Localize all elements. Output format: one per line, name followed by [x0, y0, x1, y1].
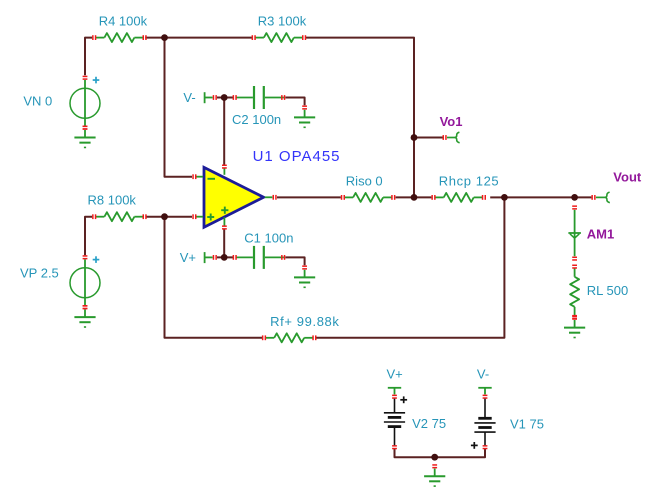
resistor R8	[88, 193, 146, 222]
junction node V- rail	[221, 94, 228, 101]
wire VN top to R4	[85, 38, 92, 76]
ammeter AM1	[568, 206, 614, 260]
battery V1	[471, 395, 544, 448]
node Vo1	[440, 114, 463, 143]
wire V- node to op-amp top pin	[223, 98, 225, 165]
wire feedback right leg	[315, 198, 504, 337]
capacitor C2	[232, 86, 285, 127]
ground of C1	[294, 266, 315, 287]
wire feedback left leg	[165, 218, 263, 338]
svg-text:Rhcp 125: Rhcp 125	[439, 173, 499, 188]
resistor Riso	[342, 173, 395, 202]
svg-text:V-: V-	[183, 90, 195, 105]
junction node R8/noninverting	[161, 213, 168, 220]
svg-text:V+: V+	[387, 367, 403, 382]
resistor Rf+	[263, 314, 340, 342]
resistor R4	[93, 14, 148, 42]
svg-text:R8 100k: R8 100k	[88, 193, 137, 208]
svg-text:R3 100k: R3 100k	[258, 14, 307, 29]
svg-text:R4 100k: R4 100k	[99, 14, 148, 29]
battery V2	[384, 395, 446, 448]
wire VP to R8	[85, 217, 92, 256]
ground of battery rail	[424, 465, 445, 486]
svg-text:Vout: Vout	[613, 169, 642, 184]
wire Vout stub	[575, 196, 592, 198]
wire node to inverting input	[165, 39, 193, 177]
wire op-amp output to Riso	[277, 196, 341, 198]
resistor RL	[570, 265, 628, 318]
wire node to Vout node	[504, 196, 574, 198]
ground of VN	[74, 126, 95, 147]
svg-text:Riso 0: Riso 0	[346, 173, 383, 188]
junction node R4/R3/inverting	[161, 34, 168, 41]
junction node V+ rail	[221, 254, 228, 261]
resistor Rhcp	[432, 173, 499, 202]
wire R4 to R3 through node	[145, 37, 252, 39]
svg-text:RL 500: RL 500	[587, 283, 628, 298]
svg-text:VN 0: VN 0	[23, 94, 52, 109]
wire Vo1 stub	[414, 137, 443, 139]
node V- battery terminal	[477, 367, 492, 395]
wire Rhcp to node	[490, 196, 504, 198]
ground of RL	[564, 316, 585, 337]
svg-text:AM1: AM1	[587, 227, 614, 242]
junction node Vo1	[411, 134, 418, 141]
node Vout	[592, 169, 642, 202]
svg-text:V2 75: V2 75	[412, 416, 446, 431]
label U1 OPA455	[253, 148, 341, 165]
wire battery bottom rail	[395, 449, 486, 457]
wire node to Rhcp	[414, 196, 431, 198]
wire R3 right down to Riso node	[306, 38, 414, 197]
svg-text:Vo1: Vo1	[440, 114, 463, 129]
node V+ battery terminal	[387, 367, 403, 395]
wire V+ terminal stub	[217, 256, 234, 258]
wire C1 to ground elbow	[285, 257, 304, 265]
capacitor C1	[233, 230, 293, 269]
junction node Vout	[571, 194, 578, 201]
wire op-amp bottom pin to V+ node	[223, 229, 225, 257]
svg-text:V+: V+	[180, 250, 196, 265]
wire R8 to noninverting input	[146, 216, 192, 218]
voltage source VP	[20, 256, 100, 309]
svg-text:U1 OPA455: U1 OPA455	[253, 148, 341, 165]
junction node Rhcp/feedback	[501, 194, 508, 201]
svg-text:VP 2.5: VP 2.5	[20, 266, 59, 281]
svg-text:V-: V-	[477, 367, 489, 382]
junction node Riso/Rhcp	[411, 194, 418, 201]
ground of VP	[74, 306, 95, 327]
svg-text:C1 100n: C1 100n	[244, 230, 293, 245]
node V- supply terminal	[183, 90, 216, 105]
svg-text:C2 100n: C2 100n	[232, 112, 281, 127]
op-amp U1	[193, 165, 276, 229]
resistor R3	[252, 14, 306, 42]
svg-text:V1 75: V1 75	[510, 416, 544, 431]
wire C2 to ground elbow	[285, 98, 304, 106]
wire Riso to node	[396, 196, 413, 198]
junction node battery ground	[431, 454, 438, 461]
ground of C2	[294, 106, 315, 127]
wire V- terminal stub	[217, 97, 234, 99]
svg-text:Rf+ 99.88k: Rf+ 99.88k	[270, 314, 339, 329]
voltage source VN	[23, 76, 100, 129]
node V+ supply terminal	[180, 250, 216, 265]
